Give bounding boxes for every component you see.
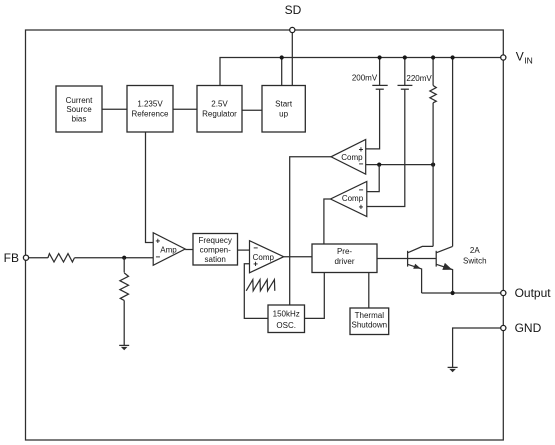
wire Vin rail bbox=[220, 58, 503, 86]
svg-text:driver: driver bbox=[334, 257, 354, 266]
terminal FB bbox=[23, 255, 28, 260]
svg-text:200mV: 200mV bbox=[352, 74, 378, 83]
wire PWM comp + input to oscillator bbox=[244, 264, 268, 319]
svg-text:OSC.: OSC. bbox=[276, 321, 296, 330]
svg-text:Current: Current bbox=[66, 96, 93, 105]
wire PWM comp out to pre-driver bbox=[284, 256, 312, 258]
svg-text:V: V bbox=[516, 49, 524, 63]
svg-text:Amp: Amp bbox=[160, 246, 177, 255]
battery 220mV reference bbox=[404, 58, 406, 86]
terminal Vin bbox=[501, 55, 506, 60]
svg-text:Pre-: Pre- bbox=[337, 247, 352, 256]
node comp1 minus / collector column bbox=[431, 163, 435, 167]
svg-text:Frequecy: Frequecy bbox=[199, 236, 232, 245]
svg-text:Start: Start bbox=[275, 100, 293, 109]
node FB input wire bbox=[29, 257, 48, 259]
wire output net bbox=[422, 292, 504, 294]
svg-text:Output: Output bbox=[515, 286, 552, 300]
block thermal shutdown bbox=[350, 308, 389, 335]
svg-text:sation: sation bbox=[205, 255, 226, 264]
svg-text:Thermal: Thermal bbox=[355, 311, 385, 320]
svg-text:−: − bbox=[253, 243, 258, 252]
wire pre-driver to switch base bbox=[377, 258, 436, 260]
op-amp error amp A1 bbox=[153, 233, 185, 266]
IC boundary box bbox=[26, 30, 504, 440]
wire comp1 + input to 200mV ref bbox=[366, 89, 380, 148]
svg-text:150kHz: 150kHz bbox=[273, 309, 300, 318]
node output junction bbox=[451, 291, 455, 295]
wire regulator to startup bbox=[242, 109, 262, 111]
wire comp1 out to oscillator top bbox=[290, 157, 331, 305]
block 150kHz oscillator bbox=[268, 305, 305, 333]
node Vin 200mV bbox=[378, 55, 382, 59]
wire amp out to frequency compensation bbox=[185, 249, 193, 251]
svg-text:220mV: 220mV bbox=[406, 74, 432, 83]
svg-text:+: + bbox=[359, 203, 364, 212]
comparator comp1 bbox=[331, 140, 366, 175]
svg-text:Regulator: Regulator bbox=[202, 109, 237, 118]
block current source bias bbox=[56, 86, 102, 132]
block frequency compensation bbox=[193, 234, 238, 266]
svg-text:−: − bbox=[155, 253, 160, 262]
svg-text:SD: SD bbox=[285, 3, 302, 17]
wire reference to amp + input bbox=[146, 132, 154, 243]
wire FB node to amp - input bbox=[74, 257, 153, 259]
node Vin R3 bbox=[431, 55, 435, 59]
battery 200mV reference bbox=[379, 58, 381, 86]
wire R3 to Q1 collector bbox=[432, 103, 434, 247]
resistor R3 pull-up bbox=[432, 58, 434, 86]
svg-text:+: + bbox=[253, 260, 258, 269]
node Vin startup bbox=[280, 55, 284, 59]
wire comp2 out to pre-driver top bbox=[324, 199, 331, 244]
svg-text:Switch: Switch bbox=[463, 256, 487, 265]
svg-text:GND: GND bbox=[515, 321, 542, 335]
block 1.235V reference bbox=[127, 86, 173, 133]
svg-text:Reference: Reference bbox=[132, 109, 169, 118]
wire startup Vin drop bbox=[281, 58, 283, 86]
wire SD vertical bbox=[291, 30, 293, 86]
svg-text:FB: FB bbox=[4, 251, 19, 265]
node comp1 minus / comp2 branch bbox=[377, 163, 381, 167]
ground symbol GND pin bbox=[448, 366, 458, 368]
sawtooth ramp waveform bbox=[246, 280, 275, 291]
svg-text:2A: 2A bbox=[470, 246, 480, 255]
node Vin 220mV bbox=[403, 55, 407, 59]
terminal GND bbox=[501, 325, 506, 330]
svg-text:Source: Source bbox=[66, 105, 92, 114]
wire divider down bbox=[123, 258, 125, 273]
block 2.5V regulator bbox=[197, 86, 242, 133]
svg-text:IN: IN bbox=[524, 55, 533, 65]
svg-text:+: + bbox=[155, 237, 160, 246]
wire oscillator to pre-driver bottom bbox=[305, 273, 325, 319]
node FB junction bbox=[122, 256, 126, 260]
wire reference to regulator bbox=[173, 108, 197, 110]
svg-text:−: − bbox=[359, 159, 364, 168]
comparator comp2 bbox=[331, 181, 367, 216]
svg-text:up: up bbox=[279, 109, 288, 118]
terminal SD bbox=[290, 27, 295, 32]
svg-text:compen-: compen- bbox=[200, 245, 231, 254]
block pre-driver bbox=[312, 244, 377, 273]
wire R2 to ground bbox=[123, 300, 125, 345]
ground symbol FB divider bbox=[119, 344, 129, 346]
block start up bbox=[262, 86, 305, 133]
resistor R1 feedback bbox=[48, 254, 75, 262]
terminal Output bbox=[501, 290, 506, 295]
node Vin Q2 collector bbox=[451, 55, 455, 59]
transistor Q2 bbox=[435, 251, 437, 267]
wire bias to reference bbox=[102, 108, 127, 110]
comparator PWM comp bbox=[250, 241, 284, 273]
resistor R2 divider bbox=[120, 273, 129, 301]
svg-text:Comp: Comp bbox=[342, 194, 364, 203]
wire comp1 - input bus bbox=[366, 164, 433, 166]
svg-text:bias: bias bbox=[72, 114, 87, 123]
svg-text:1.235V: 1.235V bbox=[137, 100, 163, 109]
transistor Q1 bbox=[407, 251, 409, 267]
wire pre-driver to thermal shutdown bbox=[368, 273, 370, 309]
svg-text:Shutdown: Shutdown bbox=[352, 321, 388, 330]
svg-text:2.5V: 2.5V bbox=[211, 100, 228, 109]
wire comp2 - input branch bbox=[367, 165, 379, 192]
wire GND net bbox=[453, 328, 504, 367]
wire Q2 collector column bbox=[452, 58, 454, 247]
wire freq comp to PWM comp - input bbox=[238, 249, 250, 251]
wire comp2 + input to 220mV ref bbox=[367, 89, 405, 206]
